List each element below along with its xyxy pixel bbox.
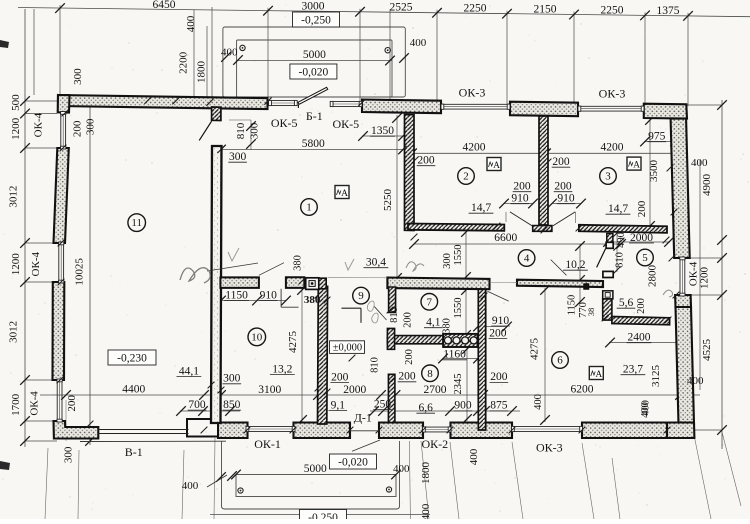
svg-text:400: 400 bbox=[393, 463, 410, 475]
svg-text:300: 300 bbox=[72, 68, 84, 85]
svg-text:-0,020: -0,020 bbox=[338, 457, 368, 469]
svg-text:2525: 2525 bbox=[390, 2, 413, 14]
svg-text:400: 400 bbox=[221, 47, 238, 59]
svg-text:300: 300 bbox=[62, 446, 74, 463]
svg-text:200: 200 bbox=[554, 181, 572, 193]
svg-text:2800: 2800 bbox=[646, 265, 658, 288]
svg-text:14,7: 14,7 bbox=[608, 203, 628, 215]
svg-text:1: 1 bbox=[306, 202, 312, 214]
svg-text:9: 9 bbox=[358, 290, 364, 302]
svg-text:23,7: 23,7 bbox=[623, 364, 643, 376]
svg-text:11: 11 bbox=[131, 217, 142, 229]
svg-text:910: 910 bbox=[260, 289, 278, 301]
svg-text:2345: 2345 bbox=[453, 374, 464, 395]
svg-text:2000: 2000 bbox=[343, 384, 366, 396]
svg-text:9,1: 9,1 bbox=[331, 399, 346, 411]
svg-text:Б-1: Б-1 bbox=[306, 109, 323, 123]
svg-text:850: 850 bbox=[223, 399, 241, 411]
svg-text:300: 300 bbox=[248, 122, 260, 139]
svg-text:-0,250: -0,250 bbox=[308, 512, 338, 519]
svg-text:3012: 3012 bbox=[8, 321, 20, 343]
svg-text:1160: 1160 bbox=[443, 349, 466, 361]
svg-text:ОК-3: ОК-3 bbox=[459, 86, 486, 100]
svg-text:380: 380 bbox=[293, 255, 304, 271]
svg-text:1150: 1150 bbox=[225, 289, 248, 301]
svg-text:200: 200 bbox=[402, 312, 413, 328]
svg-text:10025: 10025 bbox=[74, 258, 86, 286]
svg-text:2250: 2250 bbox=[464, 3, 487, 15]
svg-text:1550: 1550 bbox=[453, 298, 464, 319]
svg-text:1800: 1800 bbox=[420, 462, 432, 485]
svg-text:3012: 3012 bbox=[8, 186, 20, 208]
svg-text:Д-1: Д-1 bbox=[354, 410, 372, 424]
svg-text:910: 910 bbox=[557, 193, 575, 205]
svg-text:810: 810 bbox=[370, 357, 381, 373]
svg-text:А: А bbox=[493, 161, 500, 171]
svg-text:5,6: 5,6 bbox=[619, 297, 634, 309]
svg-text:400: 400 bbox=[410, 37, 427, 49]
svg-text:400: 400 bbox=[533, 394, 544, 410]
svg-text:10: 10 bbox=[251, 332, 263, 344]
svg-text:300: 300 bbox=[442, 253, 453, 269]
svg-text:975: 975 bbox=[648, 131, 666, 143]
svg-text:6,6: 6,6 bbox=[419, 402, 434, 414]
svg-text:200: 200 bbox=[398, 371, 416, 383]
svg-text:250: 250 bbox=[374, 398, 392, 410]
svg-text:ОК-4: ОК-4 bbox=[30, 251, 42, 276]
svg-text:5: 5 bbox=[642, 252, 648, 264]
svg-text:5000: 5000 bbox=[304, 463, 327, 475]
svg-text:200: 200 bbox=[331, 371, 349, 383]
svg-text:400: 400 bbox=[182, 480, 199, 492]
svg-text:ОК-5: ОК-5 bbox=[332, 117, 359, 131]
svg-text:500: 500 bbox=[10, 94, 22, 111]
svg-text:200: 200 bbox=[489, 327, 507, 339]
svg-text:ОК-4: ОК-4 bbox=[32, 112, 44, 137]
svg-text:300: 300 bbox=[223, 373, 241, 385]
svg-text:910: 910 bbox=[492, 315, 510, 327]
svg-text:300: 300 bbox=[229, 151, 247, 163]
svg-text:4900: 4900 bbox=[701, 174, 713, 197]
svg-text:910: 910 bbox=[511, 193, 529, 205]
svg-text:8: 8 bbox=[427, 368, 433, 380]
svg-text:810: 810 bbox=[235, 122, 247, 139]
svg-text:400: 400 bbox=[641, 400, 652, 416]
svg-text:4275: 4275 bbox=[287, 331, 299, 354]
svg-text:6: 6 bbox=[557, 355, 563, 367]
svg-text:1350: 1350 bbox=[371, 125, 394, 137]
svg-text:200: 200 bbox=[490, 371, 508, 383]
svg-text:5250: 5250 bbox=[382, 189, 394, 212]
svg-text:380: 380 bbox=[304, 294, 321, 306]
svg-text:4200: 4200 bbox=[463, 142, 486, 154]
svg-text:4275: 4275 bbox=[529, 338, 541, 361]
svg-text:4525: 4525 bbox=[701, 339, 713, 362]
svg-text:3100: 3100 bbox=[258, 384, 281, 396]
svg-text:А: А bbox=[633, 161, 640, 171]
svg-text:ОК-2: ОК-2 bbox=[421, 437, 448, 451]
svg-text:6450: 6450 bbox=[153, 0, 176, 11]
svg-text:2250: 2250 bbox=[601, 4, 624, 16]
svg-text:44,1: 44,1 bbox=[179, 365, 199, 377]
svg-text:5000: 5000 bbox=[303, 49, 326, 61]
svg-text:4,1: 4,1 bbox=[426, 317, 441, 329]
svg-text:-0,250: -0,250 bbox=[301, 15, 331, 27]
svg-text:2400: 2400 bbox=[628, 332, 651, 344]
svg-text:1550: 1550 bbox=[453, 245, 464, 266]
svg-text:А: А bbox=[341, 189, 348, 199]
svg-text:900: 900 bbox=[454, 400, 472, 412]
svg-text:700: 700 bbox=[188, 399, 206, 411]
svg-text:10,2: 10,2 bbox=[565, 259, 585, 271]
svg-text:4400: 4400 bbox=[122, 384, 145, 396]
svg-text:200: 200 bbox=[636, 298, 647, 314]
svg-text:200: 200 bbox=[72, 120, 84, 137]
svg-text:±0,000: ±0,000 bbox=[333, 343, 362, 354]
svg-text:ОК-3: ОК-3 bbox=[536, 441, 563, 455]
svg-text:810: 810 bbox=[615, 252, 626, 268]
svg-text:4200: 4200 bbox=[601, 142, 624, 154]
svg-text:ОК-1: ОК-1 bbox=[254, 437, 281, 451]
svg-text:5800: 5800 bbox=[302, 138, 325, 150]
svg-text:1200: 1200 bbox=[10, 253, 22, 276]
svg-text:200: 200 bbox=[513, 181, 531, 193]
svg-text:1200: 1200 bbox=[699, 267, 711, 290]
svg-text:400: 400 bbox=[420, 503, 432, 519]
svg-text:2150: 2150 bbox=[534, 4, 557, 16]
svg-text:3000: 3000 bbox=[302, 1, 325, 13]
svg-text:30,4: 30,4 bbox=[366, 257, 386, 269]
svg-text:200: 200 bbox=[417, 155, 435, 167]
svg-text:1150: 1150 bbox=[566, 295, 577, 316]
svg-text:13,2: 13,2 bbox=[272, 363, 292, 375]
svg-text:3500: 3500 bbox=[648, 160, 660, 183]
svg-text:400: 400 bbox=[185, 15, 197, 32]
svg-text:400: 400 bbox=[468, 448, 480, 465]
svg-text:1375: 1375 bbox=[657, 5, 680, 17]
svg-text:3: 3 bbox=[605, 171, 611, 183]
svg-text:А: А bbox=[595, 370, 602, 380]
svg-text:200: 200 bbox=[404, 349, 415, 365]
svg-text:200: 200 bbox=[636, 200, 648, 217]
svg-text:ОК-4: ОК-4 bbox=[29, 391, 41, 416]
svg-text:1700: 1700 bbox=[10, 393, 22, 416]
svg-text:1200: 1200 bbox=[10, 117, 22, 140]
svg-text:200: 200 bbox=[552, 156, 570, 168]
svg-text:400: 400 bbox=[691, 157, 708, 169]
svg-text:2: 2 bbox=[463, 171, 469, 183]
svg-text:ОК-5: ОК-5 bbox=[271, 116, 298, 130]
svg-text:2700: 2700 bbox=[424, 384, 447, 396]
svg-text:В-1: В-1 bbox=[125, 445, 143, 459]
svg-text:-0,230: -0,230 bbox=[117, 353, 147, 365]
svg-text:300: 300 bbox=[84, 118, 96, 135]
svg-text:380: 380 bbox=[442, 318, 453, 334]
svg-text:3125: 3125 bbox=[650, 365, 662, 388]
svg-text:6200: 6200 bbox=[571, 384, 594, 396]
svg-text:ОК-3: ОК-3 bbox=[599, 87, 626, 101]
svg-text:7: 7 bbox=[427, 296, 433, 308]
svg-text:6600: 6600 bbox=[494, 232, 517, 244]
svg-text:875: 875 bbox=[490, 400, 508, 412]
svg-text:-0,020: -0,020 bbox=[299, 67, 329, 79]
svg-text:38: 38 bbox=[586, 308, 596, 317]
svg-text:400: 400 bbox=[687, 375, 704, 387]
svg-text:2000: 2000 bbox=[630, 232, 653, 244]
svg-text:4: 4 bbox=[524, 253, 530, 265]
svg-text:200: 200 bbox=[66, 395, 78, 412]
svg-text:1800: 1800 bbox=[195, 61, 207, 84]
